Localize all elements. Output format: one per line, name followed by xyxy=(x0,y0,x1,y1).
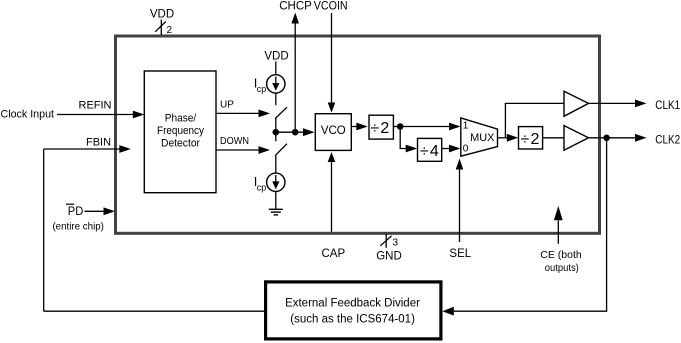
arrowhead MUX input 1 xyxy=(449,123,461,131)
svg-text:cp: cp xyxy=(257,84,267,94)
svg-text:cp: cp xyxy=(257,182,267,192)
svg-text:UP: UP xyxy=(220,100,234,111)
svg-text:3: 3 xyxy=(393,237,399,248)
wire VDD stub xyxy=(160,20,162,36)
wire clock input xyxy=(57,114,133,116)
arrowhead into divide-by-2 first xyxy=(356,123,368,131)
wire VCOIN xyxy=(331,13,333,104)
svg-text:SEL: SEL xyxy=(449,248,471,260)
svg-text:÷4: ÷4 xyxy=(420,143,440,160)
arrowhead CHCP (up) xyxy=(291,13,299,24)
svg-text:Clock Input: Clock Input xyxy=(1,109,55,121)
wire feedback from CLK2 down xyxy=(454,138,607,311)
wire CHCP riser xyxy=(294,23,296,132)
svg-text:(entire chip): (entire chip) xyxy=(52,220,104,232)
PD pin label (active low) xyxy=(66,203,74,205)
svg-text:1: 1 xyxy=(463,121,469,132)
junction dot CLK2 feedback xyxy=(603,135,610,142)
arrowhead SEL into MUX xyxy=(456,159,464,170)
wire branch up to CLK1 buffer xyxy=(505,103,564,137)
svg-text:VDD: VDD xyxy=(264,51,288,63)
wire switch to current source (bottom) xyxy=(275,156,277,174)
svg-text:VCO: VCO xyxy=(321,125,346,137)
bus slash GND xyxy=(380,236,391,246)
wire /2 to CLK2 buffer xyxy=(543,137,564,139)
svg-text:Detector: Detector xyxy=(161,137,200,149)
wire switch to node xyxy=(275,118,277,132)
divider /2 (first) xyxy=(369,115,393,139)
wire GND stub xyxy=(385,234,387,248)
svg-text:÷2: ÷2 xyxy=(370,120,390,137)
svg-text:0: 0 xyxy=(463,143,469,154)
arrowhead CE (up) xyxy=(554,206,563,220)
external feedback divider box xyxy=(266,282,441,339)
bus slash VDD xyxy=(155,22,166,32)
svg-text:External Feedback Divider: External Feedback Divider xyxy=(285,297,420,309)
arrowhead MUX input 0 xyxy=(449,145,461,153)
mux U3 xyxy=(461,118,498,156)
junction dot divider node xyxy=(397,123,404,130)
svg-text:VCOIN: VCOIN xyxy=(314,1,348,13)
svg-text:CE (both: CE (both xyxy=(540,249,582,261)
svg-text:CHCP: CHCP xyxy=(279,1,312,13)
wire DOWN xyxy=(216,149,259,151)
junction dot (CHCP node) xyxy=(292,129,299,136)
wire node down to /4 xyxy=(400,127,406,149)
phase/frequency detector U1 xyxy=(144,71,216,193)
current source I_cp (top) xyxy=(267,75,285,93)
buffer CLK2 xyxy=(564,126,589,151)
divider /2 (output) xyxy=(519,127,543,149)
wire VCO output xyxy=(351,126,356,128)
svg-text:2: 2 xyxy=(167,25,173,36)
wire feedback vertical (left) xyxy=(43,149,45,311)
svg-text:REFIN: REFIN xyxy=(79,99,112,111)
arrowhead DOWN xyxy=(259,146,271,154)
wire CE xyxy=(557,221,559,244)
arrowhead into divide-by-4 xyxy=(406,145,418,153)
wire CLK2 out xyxy=(589,137,636,139)
arrowhead PD xyxy=(104,207,116,215)
svg-text:CAP: CAP xyxy=(321,248,345,260)
arrowhead FBIN xyxy=(119,145,131,153)
svg-text:outputs): outputs) xyxy=(545,262,579,274)
arrowhead into output divide-by-2 xyxy=(507,134,519,142)
wire VDD to current source xyxy=(275,62,277,75)
arrowhead VCOIN (down into VCO) xyxy=(328,103,336,113)
wire UP xyxy=(216,112,259,114)
buffer CLK1 xyxy=(564,91,589,116)
current source I_cp (bottom) xyxy=(267,173,285,191)
wire node to MUX input 1 xyxy=(400,126,449,128)
svg-text:CLK2: CLK2 xyxy=(655,133,680,147)
main chip boundary box xyxy=(116,36,600,233)
svg-text:Frequency: Frequency xyxy=(157,125,204,137)
ground symbol xyxy=(269,208,283,210)
arrowhead UP xyxy=(259,110,271,118)
svg-text:÷2: ÷2 xyxy=(521,131,541,148)
switch UP lever xyxy=(275,107,287,118)
wire CLK1 out xyxy=(589,102,636,104)
arrowhead node to VCO xyxy=(303,128,315,136)
arrowhead REFIN into PFD xyxy=(133,111,145,119)
svg-text:Phase/: Phase/ xyxy=(165,112,197,124)
VCO U2 xyxy=(315,114,351,151)
divider /4 xyxy=(418,138,442,161)
svg-text:GND: GND xyxy=(376,250,402,262)
wire feedback bottom to divider box xyxy=(44,310,266,312)
svg-text:CLK1: CLK1 xyxy=(655,98,680,112)
switch DOWN lever xyxy=(275,144,287,156)
wire current source to switch xyxy=(275,93,277,105)
svg-text:DOWN: DOWN xyxy=(220,136,249,147)
arrowhead into external divider xyxy=(442,307,454,316)
wire PD xyxy=(85,210,104,212)
svg-text:PD: PD xyxy=(68,204,84,218)
wire SEL xyxy=(459,170,461,243)
junction dot (switch node) xyxy=(273,129,280,136)
wire MUX output xyxy=(498,137,509,139)
wire FBIN xyxy=(44,148,120,150)
arrowhead CLK2 xyxy=(635,134,647,142)
wire CAP from VCO bottom xyxy=(331,160,333,232)
wire charge-pump node xyxy=(276,131,304,133)
svg-text:VDD: VDD xyxy=(150,9,174,21)
svg-text:(such as the ICS674-01): (such as the ICS674-01) xyxy=(290,313,415,325)
arrowhead CAP into VCO bottom xyxy=(328,152,336,162)
wire divider out to node xyxy=(393,126,400,128)
wire current source to ground xyxy=(275,192,277,210)
wire /4 out to MUX input 0 xyxy=(442,148,450,150)
arrowhead CLK1 xyxy=(635,100,647,108)
svg-text:FBIN: FBIN xyxy=(86,136,111,148)
wire node to DOWN switch xyxy=(275,132,277,141)
svg-text:MUX: MUX xyxy=(470,132,495,144)
